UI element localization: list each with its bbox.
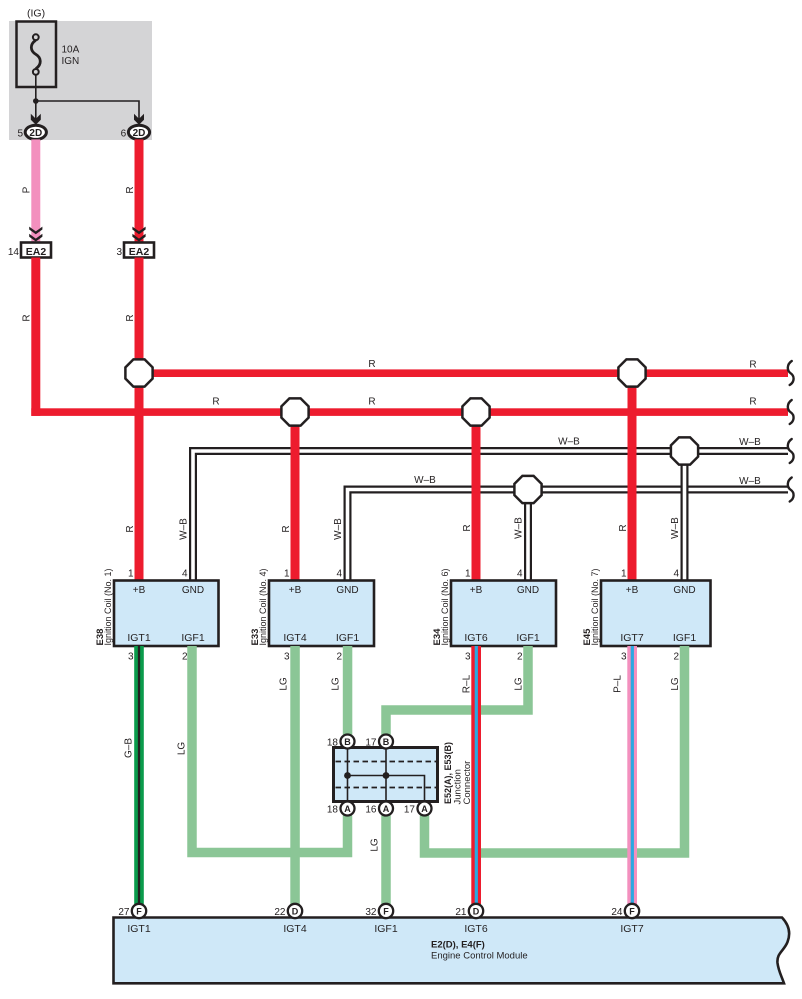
svg-text:G–B: G–B bbox=[124, 738, 135, 758]
svg-text:IGF1: IGF1 bbox=[673, 632, 696, 644]
wire W-B row from coil2 GND to right break bbox=[348, 490, 789, 581]
svg-text:R: R bbox=[125, 314, 136, 321]
svg-text:18: 18 bbox=[327, 738, 339, 749]
svg-text:3: 3 bbox=[465, 652, 471, 663]
ECM pin 22(D) IGT4 bbox=[288, 904, 302, 918]
ECM pin 27(F) IGT1 bbox=[132, 904, 146, 918]
break mark row D bbox=[788, 478, 794, 502]
svg-text:1: 1 bbox=[128, 569, 134, 580]
svg-text:+B: +B bbox=[133, 585, 146, 596]
fuse element F1 bbox=[31, 40, 40, 69]
svg-text:GND: GND bbox=[673, 585, 695, 596]
ECM pin 24(F) IGT7 bbox=[625, 904, 639, 918]
svg-text:R: R bbox=[368, 359, 375, 370]
svg-text:W–B: W–B bbox=[179, 518, 190, 540]
svg-text:3: 3 bbox=[284, 652, 290, 663]
svg-text:27: 27 bbox=[118, 907, 130, 918]
svg-text:IGT1: IGT1 bbox=[127, 923, 150, 935]
junction pin 18(A) bbox=[341, 802, 355, 816]
arrow into connector 2D pin 5 bbox=[31, 114, 41, 125]
svg-text:A: A bbox=[421, 804, 428, 814]
svg-text:P–L: P–L bbox=[613, 675, 624, 693]
svg-text:A: A bbox=[383, 804, 390, 814]
svg-text:F: F bbox=[629, 906, 635, 916]
arrow into connector 2D pin 6 bbox=[134, 114, 144, 125]
svg-text:32: 32 bbox=[365, 907, 377, 918]
wire R drop to coil2 +B bbox=[291, 412, 300, 581]
svg-text:W–B: W–B bbox=[558, 437, 580, 448]
svg-text:4: 4 bbox=[182, 569, 188, 580]
svg-text:18: 18 bbox=[327, 805, 339, 816]
svg-text:1: 1 bbox=[621, 569, 627, 580]
svg-text:16: 16 bbox=[365, 805, 377, 816]
wire R from EA2-3 down to coil1 +B bbox=[135, 258, 144, 581]
svg-text:2: 2 bbox=[182, 652, 188, 663]
svg-text:10A: 10A bbox=[62, 45, 80, 56]
junction connector internal bus 16-17 bbox=[385, 749, 387, 800]
junction node row D x528 bbox=[514, 476, 541, 503]
junction pin 17(A) bbox=[418, 802, 432, 816]
svg-text:Ignition Coil (No. 4): Ignition Coil (No. 4) bbox=[258, 568, 268, 645]
svg-text:LG: LG bbox=[670, 677, 681, 691]
svg-text:GND: GND bbox=[336, 585, 358, 596]
wire node to pin 5 bbox=[35, 101, 37, 125]
engine control module box E2(D) E4(F) bbox=[114, 918, 790, 984]
svg-text:6: 6 bbox=[121, 128, 127, 139]
svg-text:R: R bbox=[368, 397, 375, 408]
svg-text:LG: LG bbox=[279, 677, 290, 691]
svg-text:4: 4 bbox=[673, 569, 679, 580]
svg-text:Engine Control Module: Engine Control Module bbox=[431, 951, 528, 962]
svg-text:R: R bbox=[212, 397, 219, 408]
wire LG coil1 IGF1 to junction 18A bbox=[192, 646, 348, 853]
svg-text:LG: LG bbox=[331, 677, 342, 691]
svg-text:A: A bbox=[344, 804, 351, 814]
junction connector internal bus 18 bbox=[347, 749, 349, 800]
svg-text:W–B: W–B bbox=[333, 518, 344, 540]
svg-text:5: 5 bbox=[17, 128, 23, 139]
svg-text:W–B: W–B bbox=[739, 437, 761, 448]
svg-text:D: D bbox=[473, 906, 480, 916]
svg-text:24: 24 bbox=[611, 907, 623, 918]
svg-text:4: 4 bbox=[336, 569, 342, 580]
svg-text:IGT1: IGT1 bbox=[127, 632, 150, 644]
junction node row B x476 bbox=[462, 398, 489, 425]
wire R drop to coil4 +B bbox=[628, 373, 637, 581]
svg-text:F: F bbox=[136, 906, 142, 916]
wire LG coil2 IGT4 to ECM 22 bbox=[290, 646, 300, 904]
svg-text:2: 2 bbox=[336, 652, 342, 663]
svg-text:P: P bbox=[22, 186, 33, 193]
svg-text:+B: +B bbox=[470, 585, 483, 596]
wire R-L coil3 IGT6 to ECM 21 bbox=[471, 646, 481, 904]
svg-text:R–L: R–L bbox=[461, 674, 472, 693]
svg-text:D: D bbox=[292, 906, 299, 916]
svg-text:IGT7: IGT7 bbox=[620, 632, 643, 644]
svg-text:Ignition Coil (No. 6): Ignition Coil (No. 6) bbox=[440, 568, 450, 645]
junction node row B x295 bbox=[281, 398, 308, 425]
junction node row C x684.5 bbox=[671, 437, 698, 464]
wire LG junction 16A to ECM 32 bbox=[381, 816, 391, 905]
svg-text:14: 14 bbox=[8, 247, 20, 258]
junction connector E52(A) E53(B) box bbox=[334, 748, 438, 802]
wire R row A to right break bbox=[139, 369, 788, 377]
svg-text:4: 4 bbox=[517, 569, 523, 580]
svg-text:R: R bbox=[749, 397, 756, 408]
wire from fuse to node bbox=[35, 75, 37, 101]
svg-text:+B: +B bbox=[626, 585, 639, 596]
junction connector internal dashed row B bbox=[336, 761, 437, 763]
svg-text:IGF1: IGF1 bbox=[516, 632, 539, 644]
svg-text:IGF1: IGF1 bbox=[336, 632, 359, 644]
svg-text:E52(A), E53(B): E52(A), E53(B) bbox=[443, 742, 453, 804]
svg-text:+B: +B bbox=[289, 585, 302, 596]
svg-text:IGT6: IGT6 bbox=[464, 632, 487, 644]
wire W-B drop to coil3 GND bbox=[524, 490, 532, 581]
fuse IGN 10A box bbox=[17, 22, 57, 88]
svg-text:IGT4: IGT4 bbox=[283, 632, 306, 644]
svg-text:17: 17 bbox=[404, 805, 416, 816]
svg-text:LG: LG bbox=[514, 677, 525, 691]
ignition coil E34 (Ignition Coil (No. 6)) bbox=[451, 581, 556, 647]
svg-text:LG: LG bbox=[370, 838, 381, 852]
svg-text:F: F bbox=[383, 906, 389, 916]
wire P from 2D-5 to EA2-14 bbox=[31, 139, 40, 242]
break mark row A bbox=[788, 361, 794, 385]
ECM pin 32(F) IGF1 bbox=[379, 904, 393, 918]
ignition coil E33 (Ignition Coil (No. 4)) bbox=[269, 581, 374, 647]
wire R from 2D-6 to EA2-3 bbox=[135, 139, 144, 242]
ignition coil E38 (Ignition Coil (No. 1)) bbox=[114, 581, 219, 647]
svg-text:GND: GND bbox=[182, 585, 204, 596]
svg-text:W–B: W–B bbox=[414, 475, 436, 486]
junction node row A x632 bbox=[618, 359, 645, 386]
svg-text:E2(D), E4(F): E2(D), E4(F) bbox=[431, 940, 485, 951]
connector EA2 pin 3 bbox=[124, 243, 154, 258]
wire W-B row from coil1 GND to right break bbox=[193, 451, 788, 581]
svg-text:17: 17 bbox=[365, 738, 377, 749]
junction internal node dot 2 bbox=[383, 772, 390, 779]
wire LG coil2 IGF1 to junction 18B bbox=[343, 646, 353, 735]
svg-text:3: 3 bbox=[116, 247, 122, 258]
node junction dot bbox=[33, 98, 39, 104]
svg-text:2D: 2D bbox=[29, 128, 42, 139]
svg-text:LG: LG bbox=[177, 742, 188, 756]
svg-text:1: 1 bbox=[284, 569, 290, 580]
svg-text:(IG): (IG) bbox=[27, 8, 45, 20]
svg-text:EA2: EA2 bbox=[129, 246, 150, 258]
svg-text:21: 21 bbox=[455, 907, 467, 918]
svg-text:W–B: W–B bbox=[670, 517, 681, 539]
wire R drop to coil3 +B bbox=[472, 412, 481, 581]
junction connector internal link bbox=[348, 776, 425, 801]
wire P-L coil4 IGT7 to ECM 24 bbox=[627, 646, 637, 904]
svg-text:2: 2 bbox=[673, 652, 679, 663]
junction internal node dot 1 bbox=[344, 772, 351, 779]
svg-text:R: R bbox=[125, 186, 136, 193]
svg-text:B: B bbox=[344, 737, 351, 747]
inline arrows above EA2-3 bbox=[132, 227, 145, 235]
svg-text:IGN: IGN bbox=[62, 56, 80, 67]
svg-text:R: R bbox=[125, 525, 136, 532]
junction pin 18(B) bbox=[341, 735, 355, 749]
wire LG coil4 IGF1 to junction 17A bbox=[425, 646, 685, 853]
svg-text:2: 2 bbox=[517, 652, 523, 663]
wire R from EA2-14 along row B to right break bbox=[31, 258, 40, 416]
inline arrows above EA2-14 bbox=[29, 227, 42, 235]
svg-text:R: R bbox=[749, 360, 756, 371]
wire node to pin 6 bbox=[36, 101, 139, 125]
svg-text:Connector: Connector bbox=[462, 761, 473, 805]
svg-text:2D: 2D bbox=[133, 128, 146, 139]
wire W-B drop to coil4 GND bbox=[681, 451, 689, 581]
svg-text:GND: GND bbox=[517, 585, 539, 596]
svg-text:W–B: W–B bbox=[739, 476, 761, 487]
junction pin 16(A) bbox=[379, 802, 393, 816]
svg-text:EA2: EA2 bbox=[26, 246, 47, 258]
break mark row C bbox=[788, 439, 794, 463]
svg-text:1: 1 bbox=[465, 569, 471, 580]
junction node row A x139 bbox=[125, 359, 152, 386]
ECM pin 21(D) IGT6 bbox=[469, 904, 483, 918]
svg-text:IGT4: IGT4 bbox=[283, 923, 306, 935]
svg-text:3: 3 bbox=[621, 652, 627, 663]
svg-text:IGF1: IGF1 bbox=[181, 632, 204, 644]
wire G-B coil1 IGT1 to ECM 27 bbox=[134, 646, 144, 904]
svg-text:3: 3 bbox=[128, 652, 134, 663]
svg-text:W–B: W–B bbox=[514, 517, 525, 539]
svg-text:IGF1: IGF1 bbox=[374, 923, 397, 935]
connector 2D pin 5 bbox=[25, 125, 46, 139]
break mark row B bbox=[788, 400, 794, 424]
svg-text:R: R bbox=[281, 525, 292, 532]
svg-text:IGT7: IGT7 bbox=[620, 923, 643, 935]
svg-text:Ignition Coil (No. 1): Ignition Coil (No. 1) bbox=[103, 568, 113, 645]
svg-text:IGT6: IGT6 bbox=[464, 923, 487, 935]
svg-text:B: B bbox=[383, 737, 390, 747]
wire LG coil3 IGF1 to junction 17B bbox=[386, 646, 528, 735]
junction connector internal dashed row A bbox=[336, 787, 437, 789]
svg-text:R: R bbox=[462, 524, 473, 531]
connector 2D pin 6 bbox=[128, 125, 149, 139]
svg-text:Ignition Coil (No. 7): Ignition Coil (No. 7) bbox=[590, 568, 600, 645]
power source block (IG) bbox=[9, 21, 152, 140]
svg-text:R: R bbox=[22, 314, 33, 321]
ignition coil E45 (Ignition Coil (No. 7)) bbox=[601, 581, 711, 647]
svg-text:R: R bbox=[618, 524, 629, 531]
svg-text:22: 22 bbox=[274, 907, 286, 918]
junction pin 17(B) bbox=[379, 735, 393, 749]
connector EA2 pin 14 bbox=[21, 243, 51, 258]
